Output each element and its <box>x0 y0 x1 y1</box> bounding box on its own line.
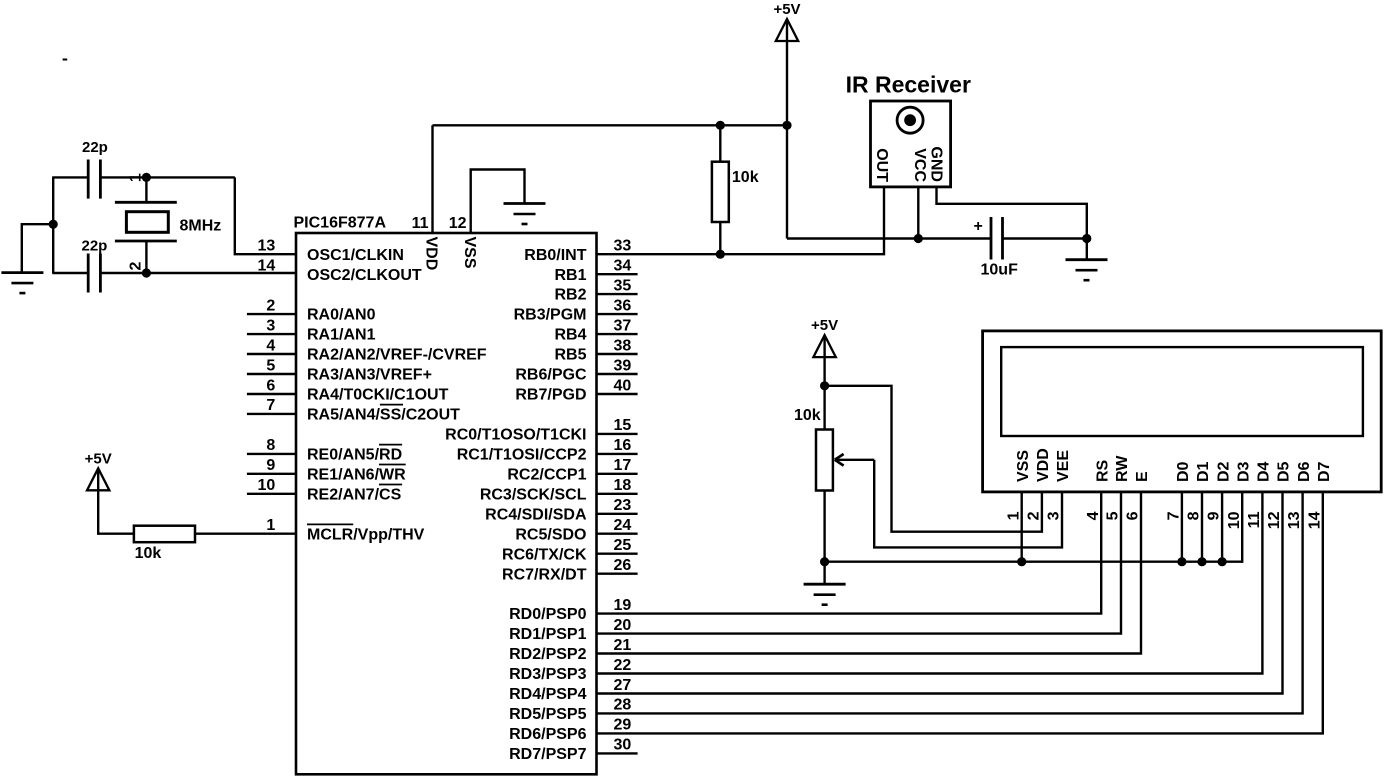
svg-text:VSS: VSS <box>1015 450 1032 482</box>
svg-text:26: 26 <box>614 557 632 574</box>
ground pot <box>804 584 846 605</box>
pin 20 RD1/PSP1 <box>509 617 631 643</box>
wire PIC pin 20 to LCD RW <box>597 492 1122 634</box>
svg-text:14: 14 <box>1306 511 1323 529</box>
svg-text:D4: D4 <box>1256 461 1273 482</box>
LCD pin 13 D6 label <box>1286 461 1313 529</box>
pin 24 RC5/SDO <box>515 517 637 543</box>
wire OSC2 to PIC pin 14 <box>100 272 297 274</box>
svg-text:RA1/AN1: RA1/AN1 <box>307 327 376 344</box>
svg-text:22p: 22p <box>82 238 108 255</box>
wire junction to LCD VDD <box>825 386 1042 532</box>
svg-text:+5V: +5V <box>811 317 838 334</box>
pin 7 RA5/AN4/SS/C2OUT <box>247 397 460 423</box>
IR receiver lens circle <box>897 107 923 133</box>
pin 23 RC4/SDI/SDA <box>485 497 637 523</box>
svg-text:1: 1 <box>1005 511 1022 520</box>
LCD pin 9 D2 label <box>1206 461 1233 520</box>
svg-text:17: 17 <box>614 457 632 474</box>
svg-text:RB5: RB5 <box>554 347 586 364</box>
wire PIC pin 29 to LCD D7 <box>597 492 1323 734</box>
LCD pin 10 D3 label <box>1226 461 1253 529</box>
node R1 / RB0 junction <box>716 250 725 259</box>
svg-text:RB4: RB4 <box>554 327 586 344</box>
svg-text:VCC: VCC <box>911 148 928 182</box>
svg-text:14: 14 <box>258 258 276 275</box>
svg-text:GND: GND <box>927 146 944 182</box>
svg-text:OSC1/CLKIN: OSC1/CLKIN <box>307 247 404 264</box>
svg-text:MCLR/Vpp/THV: MCLR/Vpp/THV <box>307 526 425 543</box>
svg-text:1: 1 <box>266 517 275 534</box>
svg-text:22p: 22p <box>82 139 108 156</box>
pin 37 RB4 <box>554 317 637 343</box>
pin 16 RC1/T1OSI/CCP2 <box>457 437 638 463</box>
wire ground bus <box>825 561 1243 563</box>
pin 27 RD4/PSP4 <box>509 677 631 703</box>
wire PIC pin 27 to LCD D5 <box>597 492 1283 694</box>
wire LCD VSS to ground bus <box>1021 492 1023 562</box>
svg-text:9: 9 <box>266 457 275 474</box>
wire LCD D0 to ground bus <box>1181 492 1183 562</box>
node pot bottom / ground bus junction <box>820 557 829 566</box>
svg-text:10k: 10k <box>732 169 759 186</box>
svg-text:21: 21 <box>614 637 632 654</box>
svg-text:RB6/PGC: RB6/PGC <box>515 367 587 384</box>
svg-text:2: 2 <box>1026 511 1043 520</box>
svg-text:6: 6 <box>1125 511 1142 520</box>
node D1 junction <box>1197 557 1206 566</box>
svg-text:+5V: +5V <box>85 450 112 467</box>
crystal X1 <box>115 177 221 273</box>
svg-text:VDD: VDD <box>423 237 440 271</box>
svg-text:D2: D2 <box>1215 461 1232 482</box>
pin 21 RD2/PSP2 <box>509 637 631 663</box>
svg-text:RC2/CCP1: RC2/CCP1 <box>507 466 586 483</box>
svg-text:37: 37 <box>614 317 632 334</box>
svg-text:10k: 10k <box>794 407 821 424</box>
capacitor C1 22p <box>82 139 108 199</box>
wire +5V down to pot <box>823 357 825 429</box>
svg-text:1: 1 <box>128 173 145 182</box>
svg-text:RB2: RB2 <box>554 287 586 304</box>
svg-text:RA4/T0CKI/C1OUT: RA4/T0CKI/C1OUT <box>307 387 449 404</box>
svg-text:RB3/PGM: RB3/PGM <box>514 307 587 324</box>
ground VSS pin 12 <box>504 204 546 225</box>
svg-text:RC3/SCK/SCL: RC3/SCK/SCL <box>480 486 587 503</box>
IR receiver module body <box>871 101 951 187</box>
svg-text:RC0/T1OSO/T1CKI: RC0/T1OSO/T1CKI <box>445 427 586 444</box>
LCD pin 7 D0 label <box>1166 461 1193 520</box>
wire RB0/INT to IR OUT <box>597 187 885 254</box>
wire LCD D2 to ground bus <box>1221 492 1223 562</box>
svg-text:11: 11 <box>1246 511 1263 528</box>
svg-text:RA0/AN0: RA0/AN0 <box>307 307 376 324</box>
wire VDD rail horizontal <box>433 124 788 126</box>
svg-text:RB7/PGD: RB7/PGD <box>515 387 586 404</box>
svg-text:27: 27 <box>614 677 632 694</box>
wire +5V rail to capacitor C3 <box>787 237 991 239</box>
svg-text:7: 7 <box>266 397 275 414</box>
node crystal bottom junction <box>142 268 151 277</box>
pot wiper arrow <box>835 454 874 466</box>
svg-text:RA3/AN3/VREF+: RA3/AN3/VREF+ <box>307 367 432 384</box>
svg-text:9: 9 <box>1206 511 1223 520</box>
wire to left ground <box>22 224 53 272</box>
pin 25 RC6/TX/CK <box>502 537 638 563</box>
wire PIC pin 21 to LCD E <box>597 492 1142 654</box>
pin 14 OSC2/CLKOUT <box>258 258 422 284</box>
resistor R1 10k <box>712 162 759 222</box>
svg-text:8MHz: 8MHz <box>180 218 222 235</box>
wire C3 right lead <box>1003 237 1087 239</box>
svg-text:RC4/SDI/SDA: RC4/SDI/SDA <box>485 506 587 523</box>
svg-text:40: 40 <box>614 377 632 394</box>
svg-text:2: 2 <box>266 297 275 314</box>
svg-text:RC7/RX/DT: RC7/RX/DT <box>502 566 587 583</box>
wire wiper to LCD VEE <box>874 460 1062 548</box>
pin 38 RB5 <box>554 337 637 363</box>
svg-text:12: 12 <box>449 215 467 232</box>
svg-text:D7: D7 <box>1316 461 1333 482</box>
svg-text:D5: D5 <box>1276 461 1293 482</box>
node LCD VSS junction <box>1017 557 1026 566</box>
svg-text:13: 13 <box>258 238 276 255</box>
svg-text:18: 18 <box>614 477 632 494</box>
svg-text:10uF: 10uF <box>981 262 1019 279</box>
wire PIC pin 22 to LCD D4 <box>597 492 1263 674</box>
svg-text:8: 8 <box>266 437 275 454</box>
svg-text:OUT: OUT <box>873 148 890 182</box>
pin 17 RC2/CCP1 <box>507 457 637 483</box>
LCD pin 11 D4 label <box>1246 461 1273 528</box>
pin 30 RD7/PSP7 <box>509 737 637 763</box>
svg-text:38: 38 <box>614 337 632 354</box>
svg-text:5: 5 <box>266 357 275 374</box>
pin 8 RE0/AN5/RD <box>247 437 402 463</box>
svg-text:RS: RS <box>1094 459 1111 482</box>
svg-text:RB0/INT: RB0/INT <box>524 247 586 264</box>
svg-text:10k: 10k <box>135 545 162 562</box>
pin 12 VSS <box>449 170 525 269</box>
node VDD rail / +5V junction <box>782 121 791 130</box>
wire IR VCC pin to +5V rail <box>917 187 919 239</box>
svg-text:25: 25 <box>614 537 632 554</box>
svg-text:RD2/PSP2: RD2/PSP2 <box>509 646 586 663</box>
ground right of C3 <box>1066 260 1108 281</box>
wire cap C1 left lead <box>52 176 88 178</box>
pin 29 RD6/PSP6 <box>509 717 631 743</box>
LCD pin 3 VEE label <box>1046 450 1073 521</box>
pin 35 RB2 <box>554 277 637 303</box>
pin 1 MCLR/Vpp/THV <box>266 517 424 543</box>
svg-text:RC5/SDO: RC5/SDO <box>515 526 586 543</box>
pin 11 VDD <box>412 125 440 270</box>
node IR VCC junction <box>914 234 923 243</box>
node C3 / GND junction <box>1082 234 1091 243</box>
svg-text:24: 24 <box>614 517 632 534</box>
pin 2 RA0/AN0 <box>247 297 376 323</box>
svg-text:15: 15 <box>614 417 632 434</box>
svg-text:3: 3 <box>1046 511 1063 520</box>
pin 33 RB0/INT <box>524 238 631 264</box>
svg-text:D1: D1 <box>1195 461 1212 482</box>
pin 4 RA2/AN2/VREF-/CVREF <box>247 337 487 363</box>
svg-text:RA5/AN4/SS/C2OUT: RA5/AN4/SS/C2OUT <box>307 407 460 424</box>
wire cap C2 left lead <box>52 272 88 274</box>
svg-text:RD5/PSP5: RD5/PSP5 <box>509 706 586 723</box>
LCD pin 2 VDD label <box>1026 448 1053 520</box>
pin 6 RA4/T0CKI/C1OUT <box>247 377 449 403</box>
wire LCD D3 to ground bus end <box>1241 492 1243 563</box>
stray dash mark <box>63 59 68 61</box>
svg-text:30: 30 <box>614 737 632 754</box>
pin 19 RD0/PSP0 <box>509 597 631 623</box>
svg-text:35: 35 <box>614 277 632 294</box>
LCD pin 4 RS label <box>1085 459 1112 520</box>
resistor R2 10k <box>134 526 195 562</box>
svg-text:+5V: +5V <box>773 1 800 18</box>
svg-text:34: 34 <box>614 258 632 275</box>
svg-text:RC1/T1OSI/CCP2: RC1/T1OSI/CCP2 <box>457 447 587 464</box>
wire +5V vertical down to cap rail <box>786 41 788 239</box>
svg-text:RA2/AN2/VREF-/CVREF: RA2/AN2/VREF-/CVREF <box>307 347 487 364</box>
node resistor R1 top junction <box>716 121 725 130</box>
svg-text:VSS: VSS <box>461 237 478 269</box>
LCD pin 1 VSS label <box>1005 450 1032 521</box>
pin 36 RB3/PGM <box>514 297 638 323</box>
svg-text:RD3/PSP3: RD3/PSP3 <box>509 666 586 683</box>
svg-text:10: 10 <box>1226 511 1243 529</box>
power +5V pot <box>811 317 838 357</box>
wire left vertical between caps <box>52 177 54 273</box>
svg-text:VEE: VEE <box>1055 450 1072 482</box>
PIC16F877A U1 body <box>296 233 597 774</box>
svg-text:33: 33 <box>614 238 632 255</box>
svg-text:13: 13 <box>1286 511 1303 529</box>
svg-text:22: 22 <box>614 657 632 674</box>
pin 22 RD3/PSP3 <box>509 657 631 683</box>
wire R2 to MCLR pin 1 <box>195 533 296 535</box>
svg-text:36: 36 <box>614 297 632 314</box>
wire PIC pin 28 to LCD D6 <box>597 492 1303 714</box>
pin 40 RB7/PGD <box>515 377 637 403</box>
capacitor C2 22p <box>82 238 108 293</box>
LCD pin 8 D1 label <box>1186 461 1213 520</box>
svg-text:RB1: RB1 <box>554 267 586 284</box>
wire +5V down to R2 <box>98 490 134 533</box>
pin 13 OSC1/CLKIN <box>258 238 404 264</box>
wire PIC pin 19 to LCD RS <box>597 492 1102 614</box>
svg-text:2: 2 <box>128 262 145 271</box>
svg-text:VDD: VDD <box>1035 448 1052 482</box>
svg-text:RE2/AN7/CS: RE2/AN7/CS <box>307 486 402 503</box>
svg-text:6: 6 <box>266 377 275 394</box>
svg-text:RC6/TX/CK: RC6/TX/CK <box>502 546 587 563</box>
svg-text:RD7/PSP7: RD7/PSP7 <box>509 746 586 763</box>
svg-text:RD6/PSP6: RD6/PSP6 <box>509 726 586 743</box>
svg-text:19: 19 <box>614 597 632 614</box>
svg-text:E: E <box>1134 471 1151 482</box>
svg-text:RD0/PSP0: RD0/PSP0 <box>509 606 586 623</box>
power +5V top rail <box>773 1 800 41</box>
svg-text:16: 16 <box>614 437 632 454</box>
svg-text:+: + <box>974 218 983 235</box>
svg-text:4: 4 <box>1085 511 1102 520</box>
svg-text:RE1/AN6/WR: RE1/AN6/WR <box>307 466 406 483</box>
node D2 junction <box>1218 557 1227 566</box>
pin 34 RB1 <box>554 258 637 284</box>
node crystal top junction <box>142 173 151 182</box>
svg-text:RE0/AN5/RD: RE0/AN5/RD <box>307 447 402 464</box>
svg-text:4: 4 <box>266 337 275 354</box>
potentiometer RV1 10k body <box>794 407 833 491</box>
pin 3 RA1/AN1 <box>247 317 376 343</box>
LCD module body <box>983 331 1382 492</box>
wire OSC1 down segment <box>235 177 297 254</box>
pin 18 RC3/SCK/SCL <box>480 477 638 503</box>
svg-text:29: 29 <box>614 717 632 734</box>
LCD pin 12 D5 label <box>1266 461 1293 529</box>
svg-text:10: 10 <box>258 477 276 494</box>
wire R1 bottom lead <box>719 222 721 254</box>
node left caps junction <box>49 220 58 229</box>
svg-text:11: 11 <box>412 215 429 232</box>
pin 9 RE1/AN6/WR <box>247 457 406 483</box>
LCD pin 5 RW label <box>1105 455 1132 521</box>
power +5V MCLR <box>85 450 112 490</box>
svg-text:7: 7 <box>1166 511 1183 520</box>
LCD display window <box>1001 347 1363 436</box>
svg-text:RW: RW <box>1114 455 1131 482</box>
svg-text:5: 5 <box>1105 511 1122 520</box>
LCD pin 14 D7 label <box>1306 461 1333 529</box>
svg-text:D3: D3 <box>1235 461 1252 482</box>
svg-text:12: 12 <box>1266 511 1283 529</box>
pin 10 RE2/AN7/CS <box>247 477 402 503</box>
LCD pin 6 E label <box>1125 471 1152 520</box>
pin 15 RC0/T1OSO/T1CKI <box>445 417 637 443</box>
svg-text:28: 28 <box>614 697 632 714</box>
svg-text:RD4/PSP4: RD4/PSP4 <box>509 686 586 703</box>
wire pot bottom to ground <box>823 491 825 585</box>
svg-text:20: 20 <box>614 617 632 634</box>
wire R1 top lead <box>719 125 721 161</box>
pin 28 RD5/PSP5 <box>509 697 631 723</box>
svg-text:OSC2/CLKOUT: OSC2/CLKOUT <box>307 267 422 284</box>
pin 26 RC7/RX/DT <box>502 557 638 583</box>
svg-text:PIC16F877A: PIC16F877A <box>294 215 387 232</box>
wire LCD D1 to ground bus <box>1201 492 1203 562</box>
capacitor C3 10uF polarized <box>974 217 1019 279</box>
node pot top / LCD VDD junction <box>820 381 829 390</box>
ground left of crystal <box>1 273 43 294</box>
svg-text:3: 3 <box>266 317 275 334</box>
svg-text:D0: D0 <box>1175 461 1192 482</box>
svg-text:IR Receiver: IR Receiver <box>846 71 971 97</box>
svg-text:39: 39 <box>614 357 632 374</box>
svg-text:RD1/PSP1: RD1/PSP1 <box>509 626 586 643</box>
wire down to right ground <box>1086 239 1088 260</box>
wire cap C1 right lead to crystal node <box>100 176 234 178</box>
node D0 junction <box>1177 557 1186 566</box>
pin 5 RA3/AN3/VREF+ <box>247 357 432 383</box>
svg-text:8: 8 <box>1186 511 1203 520</box>
wire IR GND pin <box>937 187 1087 239</box>
svg-text:23: 23 <box>614 497 632 514</box>
pin 39 RB6/PGC <box>515 357 637 383</box>
svg-text:D6: D6 <box>1296 461 1313 482</box>
